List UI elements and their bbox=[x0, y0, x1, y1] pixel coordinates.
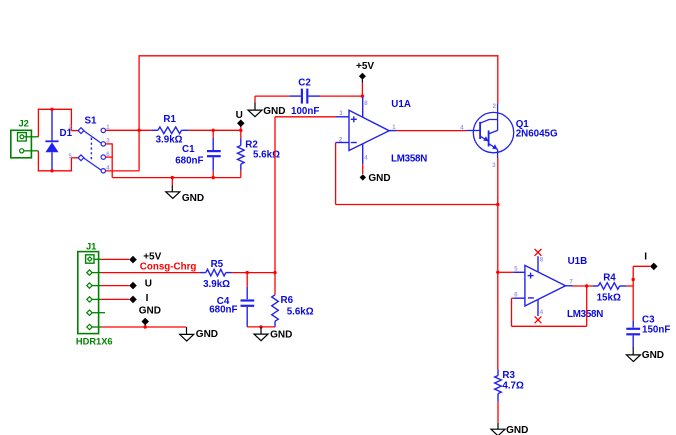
wire R1 to U node bbox=[189, 129, 241, 131]
ground C3 bbox=[626, 347, 640, 362]
svg-text:6: 6 bbox=[514, 292, 518, 298]
wire J2 pin1 bbox=[24, 136, 38, 138]
svg-text:C2: C2 bbox=[298, 77, 311, 88]
svg-text:R3: R3 bbox=[502, 370, 515, 381]
svg-text:5.6kΩ: 5.6kΩ bbox=[253, 150, 280, 161]
power GND U1A bbox=[360, 164, 366, 180]
wire U1A plus input bbox=[275, 117, 336, 273]
svg-text:C1: C1 bbox=[182, 144, 195, 155]
wire C4-R6 bottom bbox=[247, 326, 275, 328]
svg-text:U1B: U1B bbox=[568, 256, 588, 267]
svg-text:680nF: 680nF bbox=[209, 305, 237, 316]
svg-text:GND: GND bbox=[642, 350, 664, 361]
resistor R1 bbox=[151, 127, 189, 134]
wire D1 bottom bbox=[38, 170, 72, 172]
diode D1 bbox=[45, 109, 58, 171]
svg-text:3.9kΩ: 3.9kΩ bbox=[156, 134, 183, 145]
ground J1 bbox=[180, 327, 194, 341]
resistor R2 bbox=[238, 130, 245, 177]
svg-text:GND: GND bbox=[182, 193, 204, 204]
op-amp U1A bbox=[336, 97, 397, 164]
svg-text:4: 4 bbox=[540, 310, 544, 316]
wire left vertical bbox=[138, 55, 140, 171]
junction U1B output bbox=[585, 284, 588, 287]
wire I node vertical bbox=[632, 266, 634, 286]
svg-text:3: 3 bbox=[492, 163, 496, 169]
node U terminal bbox=[237, 120, 245, 131]
svg-text:R4: R4 bbox=[603, 272, 616, 283]
svg-text:S1: S1 bbox=[85, 116, 98, 127]
junction C4 top bbox=[246, 271, 249, 274]
svg-text:680nF: 680nF bbox=[175, 155, 203, 166]
wire bottom rail bbox=[112, 177, 241, 179]
svg-text:150nF: 150nF bbox=[642, 325, 670, 336]
svg-text:7: 7 bbox=[570, 280, 574, 286]
terminal +5V J1 bbox=[129, 256, 137, 264]
wire U1A feedback bbox=[336, 143, 498, 205]
wire S1 pin1 to R1 bbox=[106, 129, 152, 131]
svg-text:3: 3 bbox=[339, 111, 343, 117]
wire D1 left upper bbox=[37, 109, 39, 137]
junction C1 bottom bbox=[212, 176, 215, 179]
no-connect X U1B-8 bbox=[535, 249, 542, 256]
junction C2/+5V bbox=[361, 94, 364, 97]
terminal U J1 bbox=[129, 282, 137, 290]
wire to U1B plus bbox=[498, 271, 514, 273]
svg-text:4: 4 bbox=[364, 155, 368, 161]
transistor Q1 bbox=[467, 103, 514, 158]
wire D1 right lower bbox=[70, 158, 72, 172]
wire S1 pin5 stub bbox=[71, 157, 78, 159]
svg-text:100nF: 100nF bbox=[291, 106, 319, 117]
svg-text:2: 2 bbox=[493, 104, 497, 110]
resistor R3 bbox=[495, 370, 502, 402]
svg-text:U1A: U1A bbox=[391, 99, 411, 110]
wire R3 to gnd bbox=[497, 401, 499, 423]
svg-text:+5V: +5V bbox=[356, 61, 374, 72]
wire J1 pin1 bbox=[102, 258, 130, 260]
wire J2 pin2 bbox=[24, 150, 39, 152]
capacitor C1 bbox=[207, 130, 221, 177]
wire S1 pin3 stub bbox=[106, 143, 113, 145]
svg-text:R6: R6 bbox=[281, 295, 294, 306]
wire emitter vertical bbox=[497, 158, 499, 370]
junction gnd rail bbox=[171, 176, 174, 179]
capacitor C3 bbox=[626, 286, 640, 347]
svg-text:LM358N: LM358N bbox=[567, 309, 603, 320]
ground C2 bbox=[248, 96, 262, 117]
svg-text:GND: GND bbox=[506, 425, 528, 435]
svg-text:GND: GND bbox=[368, 173, 390, 184]
wire D1 top bbox=[38, 108, 72, 110]
junction D1 bottom bbox=[50, 169, 53, 172]
capacitor C2 bbox=[289, 89, 320, 104]
svg-text:5: 5 bbox=[514, 266, 518, 272]
capacitor C4 bbox=[241, 273, 255, 327]
wire top rail bbox=[139, 55, 498, 57]
junction D1 top bbox=[50, 108, 53, 111]
wire S1 pin3 drop bbox=[111, 143, 113, 177]
svg-text:R5: R5 bbox=[211, 259, 224, 270]
terminal I J1 bbox=[129, 296, 137, 304]
svg-text:R1: R1 bbox=[163, 114, 176, 125]
junction S1 pin1 bbox=[137, 129, 140, 132]
wire D1 right upper bbox=[70, 109, 72, 131]
svg-text:LM358N: LM358N bbox=[391, 154, 427, 165]
ground R3 bbox=[491, 423, 505, 435]
junction I node bbox=[632, 278, 635, 281]
junction C1 top bbox=[212, 129, 215, 132]
svg-text:GND: GND bbox=[196, 329, 218, 340]
svg-text:GND: GND bbox=[263, 106, 285, 117]
svg-text:J1: J1 bbox=[86, 241, 96, 251]
wire U1B output bbox=[573, 285, 594, 287]
connector J2 bbox=[11, 130, 32, 158]
svg-text:15kΩ: 15kΩ bbox=[597, 292, 621, 303]
resistor R6 bbox=[272, 273, 279, 327]
svg-text:GND: GND bbox=[139, 305, 161, 316]
wire J1 pin2 Consg-Chrg bbox=[102, 272, 201, 274]
power +5V U1A bbox=[359, 73, 366, 96]
svg-text:4.7Ω: 4.7Ω bbox=[502, 381, 524, 392]
svg-text:I: I bbox=[644, 251, 647, 262]
junction U1B input tee bbox=[496, 271, 499, 274]
svg-text:Consg-Chrg: Consg-Chrg bbox=[140, 262, 197, 273]
switch S1 bbox=[78, 128, 105, 173]
wire U1B feedback bbox=[512, 286, 587, 326]
wire S1 pin4 bbox=[106, 170, 140, 172]
junction U node bbox=[239, 129, 242, 132]
wire J1 pin4 bbox=[102, 298, 130, 300]
svg-text:J2: J2 bbox=[19, 118, 29, 128]
svg-text:GND: GND bbox=[270, 330, 292, 341]
connector J1 bbox=[78, 252, 105, 334]
resistor R5 bbox=[200, 269, 232, 276]
svg-text:3.9kΩ: 3.9kΩ bbox=[203, 279, 230, 290]
wire S1 pin2 stub bbox=[71, 130, 78, 132]
wire J1 pin6 gnd bbox=[102, 326, 187, 328]
junction gnd C4R6 bbox=[259, 325, 262, 328]
op-amp U1B bbox=[513, 256, 572, 316]
wire C2 right bbox=[320, 95, 362, 97]
resistor R4 bbox=[593, 283, 626, 290]
svg-text:HDR1X6: HDR1X6 bbox=[76, 337, 113, 347]
wire U1A output bbox=[397, 130, 467, 132]
svg-text:I: I bbox=[146, 293, 149, 304]
terminal I out bbox=[650, 263, 658, 271]
svg-text:U: U bbox=[145, 278, 152, 289]
wire I node horizontal bbox=[633, 265, 650, 267]
ground input rail bbox=[166, 178, 180, 199]
no-connect X U1B-4 bbox=[535, 316, 542, 323]
wire J1 pin3 bbox=[102, 285, 130, 287]
wire collector drop bbox=[497, 55, 499, 103]
junction R6 top bbox=[273, 271, 276, 274]
wire R4 to I node bbox=[626, 285, 633, 287]
wire C2 left bbox=[255, 95, 289, 97]
wire S1 pin6 stub bbox=[106, 156, 113, 158]
svg-text:U: U bbox=[236, 110, 243, 121]
wire D1 left lower bbox=[37, 151, 39, 172]
wire R5 to node bbox=[232, 272, 276, 274]
junction feedback emitter bbox=[496, 203, 499, 206]
ground C4R6 bbox=[254, 327, 268, 341]
svg-text:2N6045G: 2N6045G bbox=[516, 128, 558, 139]
terminal GND J1 bbox=[141, 318, 149, 327]
junction J1 gnd bbox=[144, 325, 147, 328]
svg-text:5.6kΩ: 5.6kΩ bbox=[287, 307, 314, 318]
svg-text:8: 8 bbox=[364, 101, 368, 107]
svg-text:8: 8 bbox=[540, 258, 544, 264]
